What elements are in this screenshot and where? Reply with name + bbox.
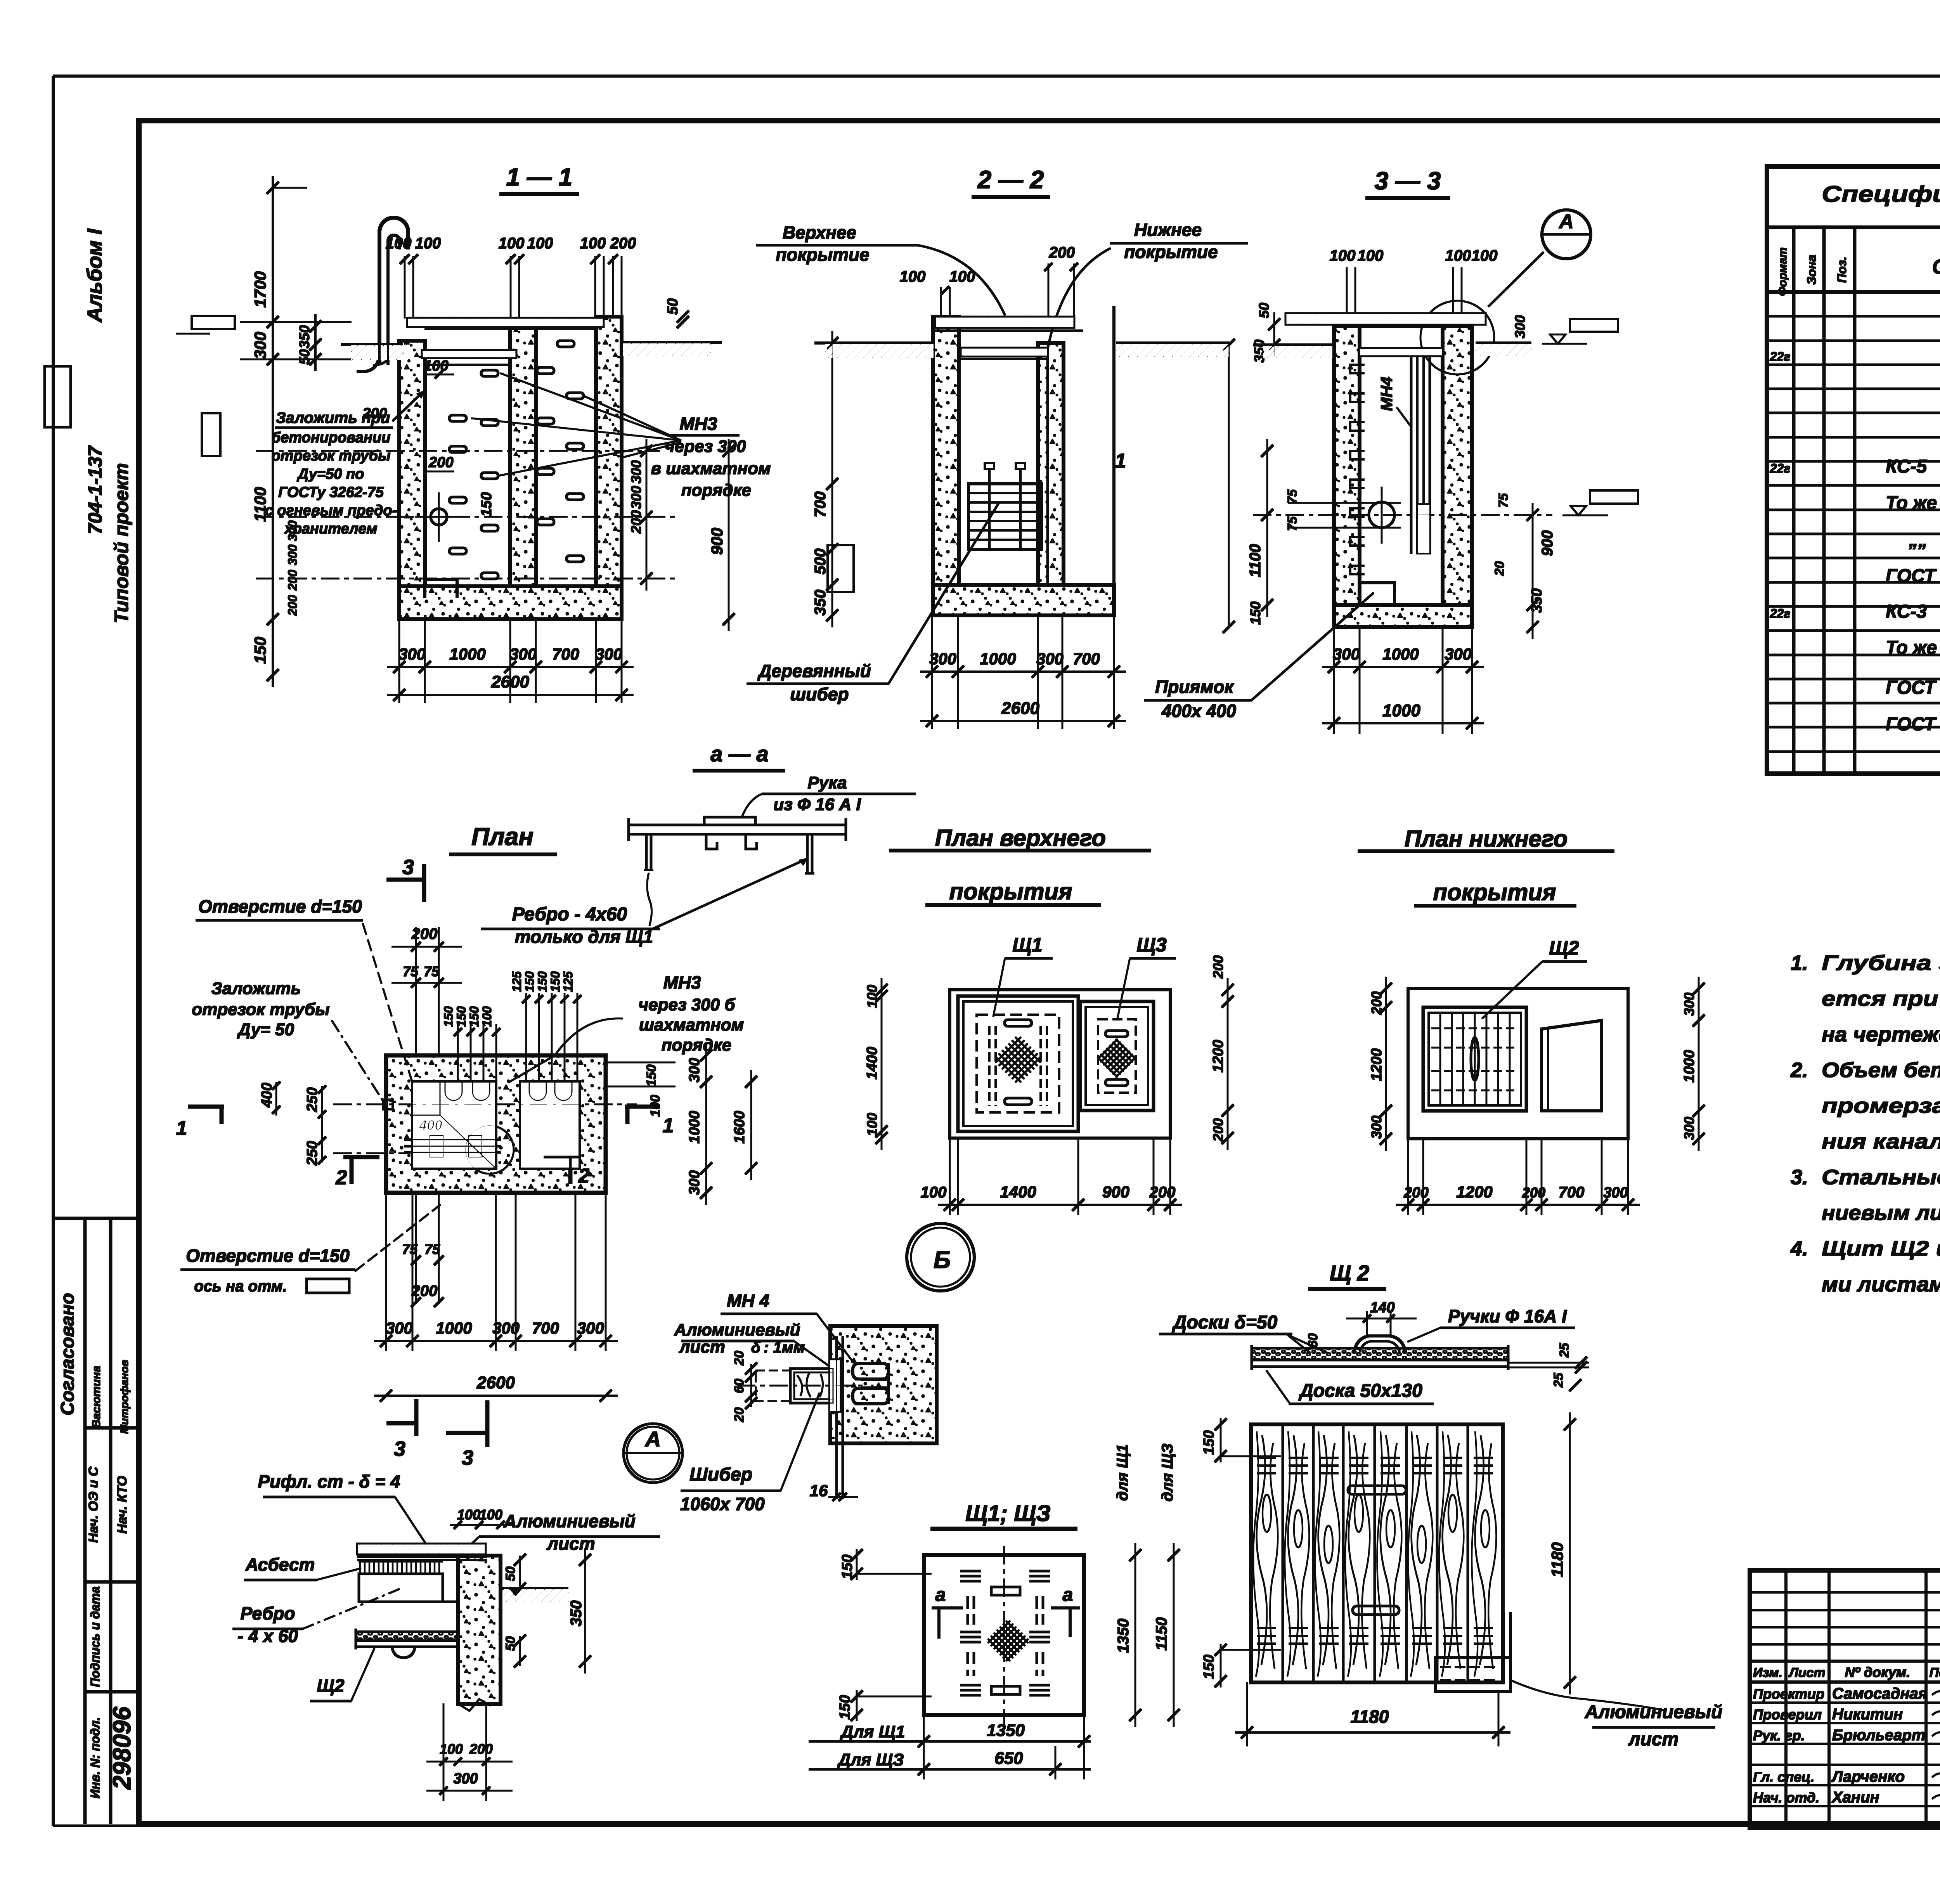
left margin stamp column: [84, 1218, 87, 1824]
svg-text:Самосадная: Самосадная: [1832, 1685, 1927, 1702]
svg-text:100: 100: [386, 235, 412, 252]
svg-text:100: 100: [1330, 247, 1356, 264]
svg-text:250: 250: [304, 1141, 320, 1166]
svg-text:100: 100: [580, 235, 606, 252]
vent pipe with flame arrester 1-1: [379, 218, 408, 365]
detail circle on joint: [1420, 301, 1494, 374]
svg-text:ГОСТ 3262 - 75: ГОСТ 3262 - 75: [1886, 566, 1940, 586]
svg-text:20: 20: [732, 1351, 747, 1366]
top cover slab 2-2: [935, 317, 1074, 327]
flap Sch2: [1436, 1658, 1510, 1692]
svg-text:через 300 б: через 300 б: [638, 995, 736, 1014]
top dim extensions 1-1: [404, 256, 405, 318]
left dims 2-2: [832, 331, 833, 627]
spec table row lines: [1767, 315, 1940, 317]
svg-text:75: 75: [1285, 516, 1300, 531]
svg-text:3: 3: [462, 1446, 473, 1469]
svg-text:Проверил: Проверил: [1753, 1706, 1822, 1722]
svg-text:ГОСТ 21631- 76: ГОСТ 21631- 76: [1886, 677, 1940, 698]
wall channel marks 3-3: [1350, 365, 1364, 373]
svg-text:200: 200: [1049, 244, 1075, 261]
svg-text:1350: 1350: [1115, 1619, 1132, 1653]
concrete block detail B: [830, 1326, 937, 1443]
svg-text:План верхнего: План верхнего: [935, 825, 1106, 851]
svg-text:2 — 2: 2 — 2: [977, 166, 1044, 194]
svg-text:МН 4: МН 4: [727, 1291, 769, 1311]
top cover slab 3-3: [1286, 314, 1485, 324]
svg-text:Рук. гр.: Рук. гр.: [1753, 1727, 1805, 1743]
svg-text:покрытия: покрытия: [1433, 879, 1556, 905]
svg-text:ГОСТу 3262-75: ГОСТу 3262-75: [278, 484, 384, 501]
svg-text:350: 350: [296, 325, 312, 348]
svg-text:100: 100: [864, 1113, 880, 1136]
svg-text:Доски δ=50: Доски δ=50: [1172, 1312, 1278, 1333]
svg-text:1600: 1600: [731, 1111, 748, 1144]
asbestos comb A: [359, 1561, 443, 1562]
wall left 3-3: [1334, 317, 1360, 605]
left dim column 1-1: [272, 176, 274, 687]
svg-text:Никитин: Никитин: [1832, 1706, 1903, 1723]
channel MN4 profile: [853, 1363, 889, 1379]
bottom slab 1-1: [399, 586, 622, 619]
svg-text:125: 125: [561, 971, 575, 992]
svg-text:200: 200: [411, 1282, 438, 1299]
svg-text:Ду=50 по: Ду=50 по: [297, 466, 364, 482]
svg-text:150: 150: [535, 971, 549, 992]
svg-text:Типовой проект: Типовой проект: [111, 463, 132, 623]
svg-text:150: 150: [523, 971, 537, 992]
svg-text:КС-5: КС-5: [1886, 456, 1928, 477]
svg-text:300: 300: [386, 1319, 413, 1337]
svg-text:350: 350: [1251, 340, 1267, 363]
svg-text:Митрофанов: Митрофанов: [118, 1360, 130, 1434]
svg-text:300: 300: [929, 650, 956, 668]
top plate A: [357, 1544, 485, 1554]
ground hatch A: [504, 1589, 568, 1602]
svg-text:22г: 22г: [1770, 461, 1791, 475]
svg-text:Для ЩЗ: Для ЩЗ: [837, 1750, 904, 1769]
svg-text:Проектир: Проектир: [1753, 1686, 1824, 1702]
svg-text:250: 250: [304, 1087, 320, 1112]
panel Sch2 plan: [1423, 1007, 1526, 1111]
svg-text:100: 100: [499, 235, 525, 252]
svg-text:МН4: МН4: [1377, 377, 1396, 411]
svg-text:Лист: Лист: [1788, 1665, 1825, 1680]
svg-text:4.: 4.: [1790, 1237, 1808, 1260]
svg-text:350: 350: [812, 590, 829, 616]
svg-text:50: 50: [665, 298, 681, 315]
bottom slab 2-2: [933, 585, 1114, 615]
svg-text:75: 75: [1285, 489, 1300, 504]
svg-text:ния канализационной трубы: ния канализационной трубы 1.65 м .: [1822, 1130, 1940, 1153]
svg-text:200: 200: [362, 405, 387, 422]
Sch2 wood panel: [1251, 1424, 1503, 1682]
svg-text:200: 200: [610, 235, 636, 252]
svg-text:Васютина: Васютина: [90, 1366, 103, 1428]
svg-text:Щ1: Щ1: [1012, 934, 1042, 956]
outer border: [53, 75, 1940, 77]
svg-text:500: 500: [812, 549, 829, 575]
section mark 3 bottom: [415, 1400, 418, 1436]
spec table frame: [1767, 166, 1940, 774]
svg-text:100: 100: [479, 1507, 502, 1523]
plan bottom dims: [416, 1193, 417, 1304]
svg-text:300: 300: [492, 1319, 520, 1337]
svg-text:300: 300: [1681, 993, 1697, 1016]
svg-text:125: 125: [510, 971, 524, 992]
svg-text:300: 300: [1681, 1117, 1697, 1140]
handle plate a-a: [704, 817, 755, 825]
svg-text:100: 100: [864, 985, 880, 1008]
svg-text:Глубина заложения канализац: Глубина заложения канализационной трубы …: [1822, 951, 1940, 975]
svg-text:Асбест: Асбест: [245, 1554, 315, 1575]
handles Sch2: [1348, 1486, 1406, 1494]
detail circle A marker: [1542, 210, 1591, 259]
svg-text:3: 3: [394, 1437, 405, 1460]
sump step 1-1: [425, 580, 457, 598]
svg-text:200: 200: [1210, 1118, 1226, 1142]
svg-text:700: 700: [532, 1319, 559, 1337]
plan walls: [386, 1055, 606, 1193]
svg-text:200: 200: [1403, 1185, 1428, 1201]
plan chamber1: [412, 1082, 496, 1168]
svg-text:100: 100: [457, 1507, 480, 1523]
svg-text:100: 100: [921, 1184, 947, 1201]
svg-text:шибер: шибер: [790, 684, 849, 704]
svg-text:МН3: МН3: [663, 972, 701, 993]
svg-text:Формат: Формат: [1776, 247, 1789, 296]
svg-text:шахматном: шахматном: [639, 1015, 744, 1034]
svg-text:Рифл. ст - δ = 4: Рифл. ст - δ = 4: [258, 1471, 400, 1492]
svg-text:на чертеже ) к конкретным: на чертеже ) к конкретным условиям.: [1822, 1023, 1940, 1046]
svg-text:Отверстие d=150: Отверстие d=150: [186, 1246, 350, 1266]
title block small rows: [1750, 1592, 1940, 1593]
wood grain: [1257, 1436, 1267, 1665]
svg-text:Б: Б: [934, 1247, 951, 1273]
upper cover outline: [950, 990, 1170, 1138]
svg-text:700: 700: [552, 645, 579, 663]
svg-text:1700: 1700: [251, 271, 269, 307]
rib pin left a-a: [646, 834, 648, 870]
axis 3-3: [1253, 515, 1552, 516]
svg-text:Щ2: Щ2: [317, 1675, 344, 1696]
svg-text:50: 50: [296, 349, 312, 365]
svg-text:1000: 1000: [1382, 701, 1420, 720]
svg-text:А: А: [644, 1427, 661, 1451]
svg-text:300: 300: [1368, 1116, 1384, 1139]
top cover slab 1-1: [407, 318, 603, 327]
svg-text:25: 25: [1557, 1343, 1572, 1358]
bottom dims 3-3: [1334, 627, 1335, 733]
svg-text:100: 100: [1472, 247, 1498, 264]
svg-text:2: 2: [578, 1165, 590, 1187]
plan top dims: [416, 927, 417, 1055]
svg-text:150: 150: [548, 971, 562, 992]
lid flap plan: [1542, 1020, 1602, 1111]
bottom dims 2-2: [932, 615, 933, 729]
plan axes: [334, 1104, 636, 1105]
svg-text:200: 200: [1210, 955, 1226, 979]
svg-text:400: 400: [259, 1083, 275, 1107]
svg-text:Нач. отд.: Нач. отд.: [1753, 1790, 1819, 1805]
svg-text:1400: 1400: [1000, 1183, 1036, 1201]
svg-text:1180: 1180: [1351, 1706, 1389, 1727]
crosshatch center: [986, 1619, 1030, 1663]
lower cover slab 1-1: [422, 350, 516, 358]
svg-text:300: 300: [251, 332, 269, 359]
svg-text:покрытия: покрытия: [949, 878, 1072, 904]
svg-text:1000: 1000: [436, 1319, 472, 1337]
svg-text:Деревянный: Деревянный: [757, 661, 871, 681]
svg-text:22г: 22г: [1770, 350, 1791, 364]
svg-text:3 — 3: 3 — 3: [1375, 167, 1441, 195]
svg-text:с огневым предо-: с огневым предо-: [265, 502, 397, 519]
svg-text:То же: То же: [1886, 493, 1937, 513]
svg-text:150: 150: [1201, 1430, 1217, 1455]
svg-text:50: 50: [1256, 303, 1272, 318]
small box left margin: [45, 366, 71, 427]
svg-text:2600: 2600: [476, 1373, 515, 1392]
svg-text:План нижнего: План нижнего: [1405, 826, 1568, 852]
svg-text:300: 300: [1512, 315, 1528, 338]
svg-text:1100: 1100: [1247, 544, 1264, 577]
level mark rect 1-1: [192, 316, 235, 329]
svg-text:1000: 1000: [449, 645, 485, 663]
svg-text:1200: 1200: [1456, 1183, 1492, 1201]
svg-text:2600: 2600: [1001, 699, 1039, 718]
nail bands Sch2: [1257, 1457, 1276, 1459]
svg-text:для Щ1: для Щ1: [1114, 1444, 1131, 1501]
svg-text:Согласовано: Согласовано: [57, 1293, 78, 1415]
svg-text:2: 2: [336, 1166, 347, 1189]
wall right 3-3: [1443, 317, 1472, 605]
svg-text:Ханин: Ханин: [1831, 1789, 1879, 1806]
wall right 1-1: [596, 317, 622, 586]
svg-text:75: 75: [402, 1241, 418, 1257]
svg-text:300: 300: [1603, 1185, 1628, 1201]
svg-text:Подпись: Подпись: [1930, 1665, 1940, 1680]
svg-text:Щ2: Щ2: [1549, 937, 1579, 959]
pipe hole 3-3: [1369, 502, 1394, 528]
panel Sch1/3: [924, 1555, 1084, 1715]
svg-text:150: 150: [644, 1065, 659, 1087]
plan wall hole: [383, 1100, 393, 1109]
svg-text:700: 700: [1073, 650, 1100, 668]
svg-text:650: 650: [994, 1749, 1023, 1768]
svg-text:300: 300: [628, 486, 644, 509]
svg-text:Рука: Рука: [807, 773, 847, 792]
plan detail circle B: [466, 1126, 514, 1174]
svg-text:150: 150: [478, 492, 495, 516]
leaders MN3 1-1: [584, 396, 681, 440]
svg-text:КС-3: КС-3: [1886, 601, 1927, 622]
svg-text:Приямок: Приямок: [1155, 677, 1234, 697]
svg-text:1200: 1200: [1368, 1048, 1385, 1081]
svg-text:704-1-137: 704-1-137: [84, 445, 106, 534]
svg-text:Стальные щиты Щ 1 и ЩЗ све: Стальные щиты Щ 1 и ЩЗ сверху покрыть ал…: [1822, 1166, 1940, 1189]
wall left 1-1: [399, 341, 425, 586]
wall middle 1-1: [510, 326, 536, 586]
svg-text:298096: 298096: [108, 1706, 136, 1790]
lower cover slab 3-3: [1360, 348, 1443, 356]
svg-text:100: 100: [527, 235, 553, 252]
plates center: [991, 1587, 1020, 1595]
section marks 1: [189, 1105, 224, 1109]
svg-text:Щит Щ2 и деревянный шибер: Щит Щ2 и деревянный шибер покрыть алюмин…: [1822, 1237, 1940, 1260]
svg-text:1000: 1000: [1382, 645, 1419, 663]
svg-text:22г: 22г: [1770, 606, 1791, 620]
svg-text:300: 300: [628, 460, 644, 483]
svg-text:2600: 2600: [491, 672, 529, 691]
svg-text:Нач. КТО: Нач. КТО: [115, 1476, 130, 1534]
svg-text:лист: лист: [546, 1533, 595, 1554]
svg-text:Для Щ1: Для Щ1: [839, 1722, 905, 1741]
svg-text:300: 300: [509, 645, 537, 663]
ground hatch left 3-3: [1264, 345, 1332, 358]
svg-text:300: 300: [398, 645, 426, 663]
svg-text:„„: „„: [1909, 530, 1928, 551]
panel sheet a-a: [630, 824, 846, 826]
svg-text:Ларченко: Ларченко: [1831, 1768, 1905, 1785]
svg-text:промерзания грунта на 1.50: промерзания грунта на 1.50 м и глубины з…: [1822, 1094, 1940, 1117]
svg-text:900: 900: [1539, 530, 1556, 556]
plan chamber2: [520, 1082, 579, 1168]
plan MN3 cups: [445, 1082, 462, 1100]
svg-text:200: 200: [286, 595, 300, 616]
svg-text:Доска 50х130: Доска 50х130: [1298, 1381, 1422, 1401]
svg-text:3.: 3.: [1791, 1166, 1808, 1189]
svg-text:300: 300: [453, 1771, 478, 1787]
svg-text:Щ 2: Щ 2: [1330, 1261, 1369, 1285]
rib pin right a-a: [807, 834, 809, 873]
signatures scribbles: [1932, 1689, 1940, 1696]
gate bar detail B: [790, 1369, 833, 1403]
wall A: [458, 1556, 501, 1704]
svg-text:порядке: порядке: [681, 481, 752, 500]
svg-text:Отверстие d=150: Отверстие d=150: [198, 896, 362, 916]
wall left 2-2: [933, 317, 959, 585]
svg-text:- 4 х 60: - 4 х 60: [237, 1626, 298, 1646]
svg-text:400: 400: [419, 1117, 442, 1133]
level mark rect 2-2: [828, 545, 854, 592]
svg-text:Альбом I: Альбом I: [83, 228, 106, 323]
svg-text:50: 50: [503, 1566, 518, 1581]
Sch2 section strip: [1252, 1348, 1508, 1360]
ground hatch right 3-3: [1476, 343, 1531, 356]
svg-text:300: 300: [595, 645, 622, 663]
lower cover slab 2-2: [961, 348, 1048, 356]
svg-text:100: 100: [1358, 247, 1384, 264]
svg-text:1060х 700: 1060х 700: [680, 1494, 765, 1514]
plan corner box: [412, 1082, 440, 1115]
svg-text:100: 100: [424, 358, 448, 374]
svg-text:200: 200: [428, 454, 453, 471]
ground hatch right 1-1: [623, 343, 710, 356]
svg-text:Заложить: Заложить: [211, 979, 301, 998]
svg-text:200: 200: [286, 570, 300, 591]
left dim column2 1-1: [315, 315, 316, 371]
svg-text:Изм.: Изм.: [1753, 1665, 1782, 1680]
svg-text:150: 150: [1247, 601, 1263, 625]
svg-text:1000: 1000: [686, 1111, 703, 1144]
svg-text:350: 350: [568, 1601, 585, 1627]
svg-text:700: 700: [1559, 1184, 1585, 1201]
svg-text:1180: 1180: [1548, 1542, 1566, 1577]
svg-text:Ручки Ф 16А I: Ручки Ф 16А I: [1448, 1306, 1567, 1326]
svg-text:700: 700: [812, 492, 829, 518]
slot edge detail B: [830, 1326, 840, 1443]
svg-text:300: 300: [577, 1319, 604, 1337]
svg-text:Щ1; ЩЗ: Щ1; ЩЗ: [965, 1501, 1051, 1526]
section mark 3 left bottom: [486, 1401, 489, 1447]
svg-text:То же: То же: [1886, 638, 1937, 658]
svg-text:для ЩЗ: для ЩЗ: [1159, 1443, 1176, 1502]
panel Sch3 plan: [1080, 1001, 1154, 1111]
axis lines 1-1: [256, 450, 660, 452]
svg-text:Nº докум.: Nº докум.: [1845, 1664, 1911, 1680]
svg-text:Алюминиевый: Алюминиевый: [1585, 1702, 1723, 1722]
svg-text:1 — 1: 1 — 1: [506, 163, 573, 191]
svg-text:150: 150: [251, 637, 269, 664]
svg-text:Нижнее: Нижнее: [1134, 220, 1202, 240]
far wall line 2-2: [1113, 307, 1115, 585]
level marks 3-3: [1570, 319, 1618, 332]
channel MN4 3-3: [1410, 356, 1412, 553]
svg-text:Брюльеарт: Брюльеарт: [1832, 1727, 1925, 1744]
svg-text:300: 300: [1036, 650, 1064, 668]
svg-text:Ребро - 4х60: Ребро - 4х60: [512, 904, 627, 925]
svg-text:100: 100: [415, 235, 441, 252]
svg-text:300: 300: [1333, 645, 1360, 663]
svg-text:Щ3: Щ3: [1136, 934, 1166, 956]
pipe hole 1-1: [431, 509, 447, 525]
svg-text:Шибер: Шибер: [689, 1464, 752, 1485]
svg-text:покрытие: покрытие: [1124, 242, 1218, 262]
svg-text:200: 200: [469, 1741, 493, 1757]
svg-text:бетонировании: бетонировании: [272, 430, 391, 446]
title block frame: [1750, 1570, 1940, 1828]
svg-text:ниевым листом δ= 1.0 мм по: ниевым листом δ= 1.0 мм по слою асбеста …: [1822, 1201, 1940, 1225]
detail circle B bottom: [907, 1223, 974, 1291]
svg-text:150: 150: [1201, 1655, 1217, 1679]
svg-text:75: 75: [424, 1241, 440, 1257]
embedded plates MN3 chamber1: [449, 415, 466, 421]
svg-text:3: 3: [402, 856, 414, 879]
wall right 2-2: [1038, 343, 1064, 585]
svg-text:ось на отм.: ось на отм.: [194, 1278, 287, 1295]
svg-text:отрезок трубы: отрезок трубы: [272, 448, 391, 464]
svg-text:в шахматном: в шахматном: [651, 459, 771, 478]
svg-text:из Ф 16 А I: из Ф 16 А I: [773, 795, 861, 814]
svg-text:Нач. ОЭ и С: Нач. ОЭ и С: [86, 1467, 101, 1543]
svg-text:300: 300: [686, 1170, 703, 1195]
svg-text:100: 100: [949, 268, 975, 285]
svg-text:1150: 1150: [1153, 1617, 1170, 1651]
svg-text:Инв. N: подл.: Инв. N: подл.: [88, 1717, 102, 1798]
lower cover outline: [1408, 989, 1628, 1139]
section mark 3 top: [423, 864, 426, 901]
svg-text:1000: 1000: [980, 650, 1016, 668]
svg-text:100: 100: [900, 268, 926, 285]
svg-text:75: 75: [424, 963, 440, 979]
svg-text:ми листами с двух сторон.: ми листами с двух сторон.: [1822, 1273, 1940, 1296]
svg-text:150: 150: [467, 1006, 481, 1027]
detail circle A bottom: [624, 1424, 682, 1483]
svg-text:1: 1: [1115, 450, 1126, 472]
svg-text:Верхнее: Верхнее: [783, 222, 856, 243]
handle hump: [1354, 1336, 1405, 1351]
svg-text:60: 60: [1306, 1333, 1320, 1348]
